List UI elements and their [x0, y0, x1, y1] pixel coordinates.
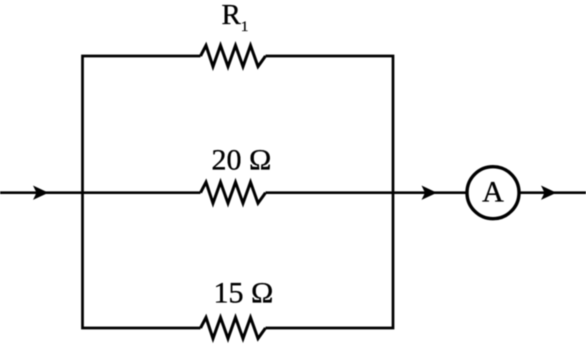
wire: left half of parallel loop (top lead, left vertical, bottom lead) — [83, 56, 201, 328]
resistor R1 zigzag (top branch) — [201, 46, 266, 67]
svg-text:20 Ω: 20 Ω — [212, 143, 272, 176]
resistor 15 ohm zigzag (bottom branch) — [201, 318, 266, 339]
resistor 20 ohm zigzag (middle branch) — [201, 182, 266, 203]
wire: middle branch output to ammeter — [266, 191, 468, 194]
arrow: current direction on output lead — [541, 186, 557, 200]
arrow: current direction before ammeter — [422, 186, 438, 200]
wire: left input lead — [0, 191, 201, 194]
svg-text:R1: R1 — [222, 0, 249, 35]
wire: output lead from ammeter — [519, 191, 586, 194]
ammeter A1 circle — [467, 167, 519, 219]
arrow: current direction on input lead — [33, 186, 49, 200]
svg-text:15 Ω: 15 Ω — [214, 277, 274, 310]
svg-text:A: A — [482, 175, 504, 208]
wire: right half of parallel loop (top lead, right vertical, bottom lead) — [266, 56, 394, 328]
